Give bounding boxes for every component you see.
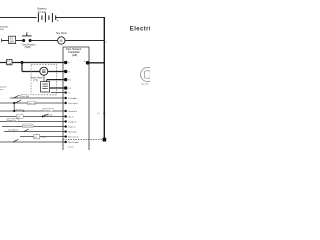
row t16 wire with switch (0, 141, 66, 143)
svg-text:xxx: xxx (0, 28, 4, 31)
row2 wire pushbutton to motor (30, 40, 58, 42)
svg-text:Torq Motor: Torq Motor (56, 32, 68, 35)
servo torque motor circle (40, 67, 48, 75)
row t14 wire (4, 131, 66, 133)
left margin note (0, 86, 7, 91)
svg-text:(Y1): (Y1) (33, 80, 38, 82)
svg-text:Tens Set: Tens Set (21, 95, 29, 98)
row t8 wire tension set switch (10, 97, 66, 99)
svg-text:Unwind In: Unwind In (68, 111, 77, 113)
battery BT1 label (38, 7, 47, 14)
row2 wire motor to bus (65, 40, 104, 42)
controller positive terminal to bus (88, 62, 105, 64)
svg-text:(-): (-) (97, 113, 99, 115)
branch down from t9 (13, 103, 15, 111)
row t13 wire (2, 126, 66, 128)
pushbutton S2B (22, 32, 32, 42)
wire battery negative to right bus corner (56, 17, 105, 19)
fuse F2 box (7, 59, 12, 64)
controller A3 title (66, 48, 82, 57)
svg-text:S: S (68, 93, 70, 95)
dashed shield wire to bus (63, 139, 103, 141)
svg-text:Taper In: Taper In (68, 127, 75, 129)
svg-text:P: P (68, 62, 70, 64)
row t11 wire (0, 116, 66, 118)
svg-text:M: M (60, 39, 63, 43)
row t7 wire (51, 92, 66, 94)
shield termination square (103, 138, 107, 142)
svg-text:Run Enable: Run Enable (68, 142, 79, 144)
row2 wire stub at left edge (1, 39, 3, 42)
controller box A3 (63, 47, 89, 150)
wire valve to controller t5 (47, 79, 66, 81)
svg-text:V2: V2 (68, 88, 71, 90)
row t15 wire with relay box (20, 136, 66, 138)
row t9 wire with pot box (0, 102, 66, 104)
servo valve box B1 (41, 82, 50, 92)
svg-text:Ext Cur Lim: Ext Cur Lim (68, 136, 79, 139)
svg-text:Speed Ref: Speed Ref (23, 126, 32, 128)
svg-text:K1: K1 (34, 137, 36, 139)
svg-text:Punch Up: Punch Up (44, 115, 52, 117)
svg-text:Unwind: Unwind (44, 110, 50, 112)
svg-text:a: a (105, 42, 107, 44)
svg-text:Tens Pot: Tens Pot (28, 102, 36, 105)
row2 wire fuse to pushbutton (16, 40, 24, 42)
servo valve label Y1 (31, 77, 44, 83)
svg-text:Pot: Pot (17, 116, 20, 119)
svg-text:b: b (84, 61, 86, 63)
junction node (21, 61, 24, 64)
row3 wire left edge to fuse F2 (0, 62, 7, 64)
svg-text:10A: 10A (7, 62, 11, 65)
svg-text:Spd Input: Spd Input (68, 131, 77, 134)
svg-text:Servo Valve: Servo Valve (31, 77, 44, 80)
svg-text:Relay: Relay (41, 137, 46, 139)
row4 wire branch to servo circle (22, 71, 40, 73)
svg-text:xxx xxx: xxx xxx (141, 84, 149, 86)
branch wire down (21, 63, 23, 72)
svg-text:4-20mA In: 4-20mA In (68, 97, 77, 100)
svg-text:Electrical: Electrical (130, 26, 150, 32)
connector circle to valve box (43, 75, 45, 81)
torque motor M circle (58, 37, 65, 44)
small mark under wire (57, 20, 58, 21)
torque motor M label (56, 32, 68, 35)
big terminal dots on controller left edge (64, 61, 67, 90)
row t12 wire (0, 121, 66, 123)
svg-text:Gauge In: Gauge In (68, 121, 76, 123)
svg-text:15A: 15A (9, 41, 14, 44)
label note top-left (cut) (0, 26, 9, 32)
fuse F1 box (9, 36, 16, 43)
battery BT1 plates (38, 13, 55, 22)
figure circle cut at right edge (141, 67, 155, 81)
svg-text:Wind Sw: Wind Sw (15, 109, 23, 111)
terminal labels inside box (68, 62, 71, 90)
svg-text:Tach Input: Tach Input (68, 102, 78, 105)
svg-text:V1: V1 (68, 80, 71, 82)
svg-text:Dia In: Dia In (68, 116, 73, 118)
dashed enclosure servo valve assembly (31, 65, 57, 95)
row2 wire from edge to fuse F1 (2, 40, 9, 42)
bus vertical right (battery negative rail) (103, 17, 105, 141)
svg-text:xxx: xxx (0, 89, 4, 91)
wire top positive from battery to left edge (0, 17, 37, 19)
row t10 wire (0, 110, 66, 112)
svg-text:xx xxx: xx xxx (68, 147, 74, 149)
svg-text:(A3): (A3) (72, 54, 77, 57)
row4 wire servo circle to controller (48, 71, 66, 73)
svg-text:Line Speed: Line Speed (8, 130, 18, 132)
row3 wire fuse to controller (12, 62, 66, 64)
wire valve to controller t6 (50, 87, 66, 89)
pushbutton S2B label (22, 44, 36, 50)
svg-text:Diam Pot: Diam Pot (8, 119, 16, 122)
svg-text:N: N (68, 71, 70, 73)
svg-text:(S2B): (S2B) (25, 46, 31, 49)
